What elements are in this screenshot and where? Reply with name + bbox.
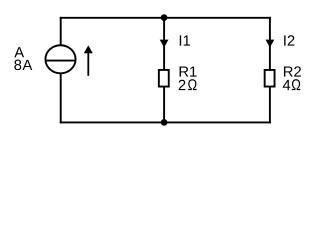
label I1	[180, 35, 190, 45]
current arrow I2 (down)	[266, 40, 275, 48]
wire left branch upper segment	[60, 17, 62, 46]
wire top rail	[60, 17, 271, 19]
wire right branch lower segment	[269, 87, 271, 124]
current source A1 (circle with horizontal bar)	[45, 45, 75, 73]
label R2	[284, 66, 301, 76]
wire middle branch upper segment	[163, 17, 165, 70]
label R1	[180, 66, 197, 76]
resistor R2	[265, 70, 275, 87]
wire left branch lower segment	[60, 73, 62, 123]
current source direction arrow (up)	[84, 45, 93, 75]
junction node top	[161, 14, 168, 21]
wire right branch upper segment	[269, 17, 271, 70]
value label 2Ω	[179, 79, 197, 90]
current arrow I1 (down)	[160, 40, 169, 48]
label A	[14, 47, 24, 57]
wire bottom rail	[60, 121, 271, 123]
wire middle branch lower segment	[163, 87, 165, 124]
resistor R1	[159, 70, 169, 87]
value label 8A	[14, 60, 32, 70]
value label 4Ω	[283, 79, 301, 90]
junction node bottom	[161, 119, 168, 126]
label I2	[284, 35, 294, 45]
